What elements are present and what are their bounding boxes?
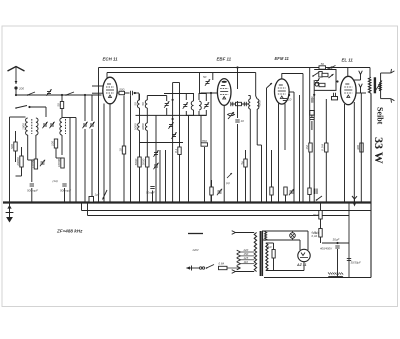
capacitor 1uF on bus [89, 197, 94, 203]
stub [307, 248, 309, 250]
switch fb [312, 73, 318, 77]
capacitor 10 10 [235, 119, 244, 123]
wire B+ vertical right [348, 203, 350, 278]
wire rectifier heater top [262, 230, 308, 232]
switch wave-change S1a [27, 92, 35, 96]
svg-text:3000: 3000 [141, 123, 145, 130]
wire vertical [325, 99, 327, 203]
trimmer capacitor fb [314, 78, 319, 84]
junction [313, 94, 315, 96]
svg-text:220V: 220V [192, 248, 199, 252]
wire vertical [302, 74, 304, 203]
wire [249, 109, 251, 203]
wire [84, 129, 86, 203]
wire osc to ECH triode grid [92, 85, 103, 87]
stub [310, 100, 312, 102]
svg-text:P1Ω: P1Ω [313, 213, 319, 217]
wire vertical [165, 150, 167, 203]
coil osc fb a 5000 [133, 123, 139, 131]
trimmer capacitor IF1 b [204, 102, 209, 108]
wire bottom of osc block [140, 142, 184, 144]
wire loop top [147, 95, 166, 97]
stub [285, 150, 287, 187]
svg-text:700: 700 [202, 139, 207, 143]
svg-text:10: 10 [288, 98, 292, 102]
terminal circle mains a [202, 267, 204, 269]
stub [231, 91, 248, 93]
wire L1 bottom down [27, 135, 29, 160]
wire top connector [173, 82, 180, 84]
wire left vertical to bus [9, 117, 11, 203]
resistor fb2 [322, 73, 328, 76]
wire [360, 75, 362, 81]
svg-text:ZF=488 kHz: ZF=488 kHz [56, 229, 83, 234]
box NSW [332, 97, 338, 100]
terminal fork tap 125 [237, 258, 241, 262]
terminal fork speaker bottom [391, 99, 395, 103]
wire heater rail 2 below bus [88, 215, 350, 217]
junction [172, 118, 174, 120]
core line mains b [261, 231, 263, 276]
wire [311, 121, 313, 130]
wire rail R2 (AVC line) [107, 72, 256, 74]
resistor 20000 20000 [16, 156, 23, 167]
wire [61, 135, 63, 155]
winding [265, 232, 267, 241]
wire feedback loop rectangle [314, 70, 336, 91]
wire [204, 147, 206, 203]
svg-text:200: 200 [18, 87, 24, 91]
junction [28, 106, 30, 108]
wire down to IF1 coil [138, 93, 140, 100]
wire coil top join [62, 117, 76, 119]
resistor 300 300 [356, 143, 363, 152]
potentiometer volume with arrow [228, 112, 234, 119]
svg-text:500mμF: 500mμF [27, 189, 38, 193]
wire [211, 195, 213, 203]
wire vertical [179, 83, 181, 203]
wire [256, 109, 258, 145]
stub [321, 242, 323, 244]
svg-text:Seibt: Seibt [376, 107, 385, 125]
svg-text:500: 500 [119, 87, 124, 91]
wire [166, 108, 168, 115]
wire EL11 anode toward OT [356, 92, 366, 94]
wire vertical EFM left [266, 88, 268, 203]
wire antenna down to band switch [15, 90, 17, 96]
svg-text:10: 10 [118, 148, 122, 152]
resistor [284, 187, 287, 195]
svg-text:15000: 15000 [30, 159, 34, 168]
wire ECH11 anode out [117, 92, 119, 94]
stub [330, 68, 332, 73]
wire EL11 pin down [353, 102, 355, 203]
wire bus down to heater line [320, 203, 322, 244]
wire [237, 101, 239, 107]
svg-text:EBF 11: EBF 11 [217, 57, 232, 62]
svg-text:1000: 1000 [22, 123, 26, 130]
wire [139, 94, 141, 100]
wire [273, 243, 275, 250]
wire anode supply rail R1 left part [99, 67, 320, 69]
svg-text:EFM 11: EFM 11 [275, 56, 290, 61]
wire vertical [271, 150, 273, 187]
wire tuning input line [16, 94, 102, 96]
resistor 10000 10000 [57, 158, 64, 168]
capacitor 30uF [335, 246, 339, 248]
svg-text:3000: 3000 [142, 158, 146, 165]
wire [245, 167, 247, 203]
wire [84, 95, 86, 121]
resistor 1M 1M [305, 143, 312, 152]
coil IF2 primary [249, 99, 251, 109]
coil L3 oscillator [60, 118, 62, 135]
wire [21, 147, 23, 156]
wire EL11 grid drop [347, 68, 349, 77]
wire [146, 96, 148, 101]
svg-text:30μF: 30μF [333, 238, 340, 242]
wire vertical B+ branch [309, 68, 311, 203]
core line mains a [259, 231, 261, 276]
wire [16, 175, 22, 177]
capacitor [62, 184, 66, 186]
trimmer capacitor antenna [46, 89, 51, 95]
svg-text:110: 110 [244, 260, 249, 264]
svg-text:30/30μF: 30/30μF [351, 261, 362, 265]
coil osc fb b 3000 [141, 123, 147, 131]
wire main chassis bus (thick) [3, 201, 372, 203]
resistor 3000 3000 [142, 157, 149, 167]
wire EFM pin down [278, 104, 280, 203]
junction [61, 94, 63, 96]
trimmer capacitor padding [164, 101, 169, 107]
arrow EFM target [267, 83, 273, 88]
wire [21, 167, 23, 176]
terminal fork tap 110 [237, 262, 241, 266]
wire vertical [69, 118, 71, 203]
trimmer capacitor [153, 150, 158, 156]
stub [356, 92, 361, 94]
switch tone [316, 196, 322, 201]
capacitor NF [334, 93, 336, 97]
capacitor [231, 102, 233, 106]
wire osc to ECH cathode [92, 92, 103, 94]
capacitor padder [30, 184, 34, 186]
svg-text:50: 50 [203, 75, 207, 79]
svg-text:400/450V: 400/450V [320, 247, 333, 251]
wire [55, 148, 57, 158]
wire [360, 88, 362, 94]
wire tap 220 [241, 251, 255, 253]
svg-text:4000: 4000 [258, 100, 262, 107]
wire corner up from heater rail [81, 203, 83, 211]
svg-text:20000: 20000 [16, 157, 20, 167]
wire IF1 loop R top [199, 94, 206, 102]
junction [336, 242, 338, 244]
capacitor 30 30uF [347, 259, 351, 261]
svg-text:5000: 5000 [134, 158, 138, 165]
wire [152, 191, 154, 203]
wire EBF cathode down [223, 105, 225, 202]
trimmer capacitor C1 [42, 122, 47, 128]
svg-text:33 W: 33 W [372, 137, 386, 164]
terminal fork speaker top [391, 69, 395, 73]
svg-text:5μ: 5μ [240, 161, 244, 165]
arrowhead mains [186, 266, 190, 269]
wire diode row [231, 103, 248, 105]
wire ECH11 cathode to bus [103, 104, 105, 203]
wire [311, 115, 313, 117]
svg-text:100: 100 [50, 141, 54, 146]
resistor P1 upper [319, 211, 322, 220]
wire [134, 92, 140, 94]
wire vertical fb [313, 80, 315, 203]
stub [288, 92, 290, 95]
arrow fb [329, 74, 334, 78]
potentiometer arm to bus [103, 190, 108, 200]
wire [146, 131, 148, 143]
svg-text:0.1: 0.1 [174, 148, 178, 153]
junction [236, 66, 238, 68]
wire stub [123, 93, 125, 146]
resistor 5000 5000 [134, 157, 141, 167]
wire [273, 258, 275, 271]
wire vertical [75, 118, 77, 203]
coil L2 antenna secondary [36, 118, 38, 135]
arrow band indicator a [227, 173, 232, 178]
tube AZ11 rectifier [298, 249, 310, 261]
svg-text:50: 50 [133, 102, 137, 106]
wire [139, 115, 141, 123]
terminal circle mains b [199, 267, 201, 269]
stub [222, 105, 224, 202]
resistor 50 in rail 50 [319, 62, 326, 69]
coil osc grid b 50 [141, 100, 147, 108]
terminal fork tap 110b [237, 266, 241, 270]
wire [139, 108, 141, 115]
trimmer capacitor osc 2 [89, 122, 94, 128]
trimmer capacitor [217, 189, 222, 195]
wire [245, 150, 247, 159]
svg-text:(A): (A) [226, 181, 230, 185]
wire speaker left vertical [380, 73, 382, 99]
svg-text:50: 50 [321, 62, 325, 66]
wire padder to bus [31, 188, 33, 203]
winding [266, 243, 268, 271]
capacitor [312, 98, 314, 102]
resistor 500 anode 500 [119, 87, 125, 94]
wire [15, 151, 17, 162]
svg-text:500mμF: 500mμF [60, 189, 71, 193]
wire [249, 96, 251, 100]
fuse 0.8A [219, 266, 228, 269]
wire bottom PSU line left [264, 277, 300, 279]
resistor [210, 187, 213, 195]
coil IF1 secondary [199, 101, 201, 110]
capacitor 5uF box 5μ [240, 159, 247, 167]
trimmer capacitor osc 1 [82, 122, 87, 128]
antenna series capacitor blob [14, 86, 17, 89]
wire [211, 180, 213, 187]
resistor 0.3M 0.3M [321, 143, 328, 152]
wire tap 110 [241, 263, 255, 265]
wire from rail to EBF anode [237, 68, 239, 90]
svg-text:EL 11: EL 11 [342, 58, 354, 63]
trimmer capacitor [289, 189, 294, 195]
svg-text:10: 10 [241, 119, 245, 123]
svg-text:50: 50 [311, 96, 315, 100]
wire IF1 loop R bottom [199, 110, 206, 115]
wire [271, 195, 273, 203]
capacitor 50muF [150, 187, 154, 189]
wave switch dashed oval [228, 113, 235, 116]
wire down to trimmer [45, 107, 47, 117]
coil IF1 primary [191, 101, 193, 110]
wire [237, 124, 239, 203]
core dashes antenna coil [31, 119, 33, 134]
capacitor [310, 118, 314, 120]
capacitor 10 10 [283, 98, 292, 102]
junction [172, 99, 174, 101]
wire screen line [172, 83, 174, 203]
trimmer capacitor [153, 163, 158, 169]
stub [163, 94, 165, 96]
wire vertical [293, 92, 295, 203]
wire vertical [188, 115, 190, 202]
coil IF2 secondary [257, 99, 259, 109]
resistor fb1 [319, 72, 322, 78]
wire [139, 131, 141, 143]
junction [84, 94, 86, 96]
wire to junction [336, 81, 338, 83]
wire rectifier heater bottom [262, 239, 300, 241]
wire vertical [139, 143, 141, 203]
wire [64, 188, 66, 203]
winding [254, 233, 256, 272]
wire primary bottom lead [236, 271, 255, 273]
junction [134, 92, 136, 94]
stub [303, 243, 305, 249]
wire EBF grid drop [212, 73, 214, 81]
svg-text:50: 50 [56, 103, 60, 107]
wire vertical [146, 143, 148, 203]
wire mains lead [187, 267, 203, 269]
switch wave-change S1b [65, 92, 74, 96]
terminal fork tap 220 [237, 250, 241, 254]
wire [56, 157, 63, 159]
wire DC line [322, 242, 349, 244]
wire [248, 95, 250, 97]
svg-text:10000: 10000 [57, 158, 61, 167]
wire tap 150 [241, 255, 255, 257]
choke / field coil [328, 273, 343, 278]
wire filter cap to ground line [337, 249, 339, 278]
resistor P1 lower [319, 229, 322, 238]
wire heater to AZ11 [307, 231, 309, 250]
capacitor block 1uF [310, 111, 315, 116]
wire HV to cap [266, 242, 274, 244]
trimmer capacitor IF1 a [183, 102, 188, 108]
wire OT bottom long vertical [370, 93, 372, 277]
wire vertical [210, 93, 212, 203]
tick on mains lead [191, 266, 193, 271]
resistor 15000 15000 [30, 159, 37, 169]
wire EFM pin down 2 [284, 104, 286, 151]
tube EBF11 diode-pentode [217, 79, 231, 106]
svg-text:50: 50 [141, 102, 145, 106]
wire [146, 115, 148, 123]
wire to taps [227, 267, 241, 269]
terminal fork g2 [359, 71, 363, 75]
tube ECH11 triode-hexode [103, 77, 117, 104]
wire IF1 loop L left bottom [186, 110, 193, 115]
wire EFM anode right [289, 91, 294, 93]
wire bottom PSU line [300, 277, 371, 279]
wire [91, 95, 93, 121]
svg-text:AZ 11: AZ 11 [296, 263, 307, 267]
svg-text:50mμF: 50mμF [146, 191, 155, 195]
wire [285, 195, 287, 203]
wire [123, 154, 125, 203]
wire vertical [159, 150, 161, 203]
capacitor [244, 102, 246, 106]
trimmer capacitor C2 [49, 122, 54, 128]
wire [130, 95, 132, 202]
stub [189, 233, 203, 235]
core bar OT [374, 77, 376, 93]
wire screen feed vertical [98, 68, 100, 203]
wire rail to OT [369, 68, 371, 78]
wire heater to AZ11 b [299, 240, 301, 250]
svg-text:ECH 11: ECH 11 [103, 57, 119, 62]
svg-text:0.8A: 0.8A [219, 262, 225, 266]
terminal fork top [232, 231, 236, 235]
resistor fb3 [319, 83, 325, 86]
wire vertical [200, 115, 202, 142]
svg-text:5000: 5000 [133, 123, 137, 130]
wire corner up from heater rail 2 [87, 203, 89, 216]
wire vertical [360, 93, 362, 203]
wire EL11 to fork g2 [354, 79, 361, 81]
switch in rail [327, 66, 335, 70]
wire [91, 129, 93, 203]
antenna [8, 67, 25, 85]
coil L1 antenna primary 1000 [22, 118, 28, 135]
wire primary top lead [236, 232, 255, 234]
junction [288, 94, 290, 96]
wire [30, 106, 47, 108]
wire speaker top [381, 72, 391, 74]
resistor 50 osc 50 [56, 102, 63, 109]
resistor 0.1 0.1 [174, 147, 181, 155]
winding OT primary [368, 77, 371, 93]
tube EL11 output pentode [341, 76, 357, 104]
svg-text:0.3M: 0.3M [321, 144, 325, 151]
core dashes osc coil [65, 119, 67, 134]
junction [330, 66, 332, 68]
wire second mains lead stub [188, 233, 203, 235]
svg-text:500: 500 [10, 144, 14, 149]
wire IF sec to AVC rail [199, 73, 201, 94]
capacitor 30uF electrolytic [272, 250, 275, 259]
wire rail to IF2 [255, 73, 257, 97]
wire speaker bottom [381, 98, 391, 100]
capacitor coupling [131, 91, 133, 95]
electrolytic capacitor [315, 189, 318, 195]
wire AZ11 cathode down [303, 262, 305, 271]
svg-text:1μF: 1μF [95, 193, 100, 197]
wire join coil bottoms [28, 159, 36, 161]
